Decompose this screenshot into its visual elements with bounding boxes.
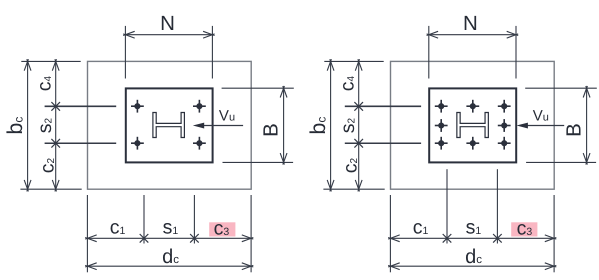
dimension line N bbox=[125, 34, 212, 36]
svg-text:dc: dc bbox=[162, 246, 179, 268]
tick c1/s1 bbox=[140, 234, 149, 243]
tick chain at bolt row 2 bbox=[354, 139, 363, 148]
svg-text:c3: c3 bbox=[214, 217, 230, 239]
label b_c bbox=[3, 117, 27, 135]
extension line footing bottom-left bbox=[20, 188, 81, 190]
dimension line B bbox=[586, 88, 588, 162]
arrowhead c1 left bbox=[85, 235, 97, 242]
extension line footing bottom-left bbox=[323, 188, 384, 190]
extension line plate top edge (B) bbox=[222, 87, 294, 89]
svg-text:s1: s1 bbox=[466, 217, 482, 239]
label B bbox=[260, 123, 283, 137]
extension line bolt row 2 bbox=[345, 142, 421, 144]
arrowhead b_c top bbox=[24, 59, 31, 70]
arrowhead b_c top bbox=[327, 59, 334, 70]
arrowhead B bottom bbox=[280, 153, 287, 165]
arrowhead d_c right bbox=[545, 263, 557, 270]
label B bbox=[563, 123, 586, 137]
anchor bolt 3 bbox=[498, 100, 511, 113]
svg-text:c4: c4 bbox=[34, 76, 56, 92]
dimension line c1/s1/c3 bbox=[390, 237, 554, 239]
arrowhead d_c right bbox=[242, 263, 254, 270]
extension line d_c right bbox=[250, 195, 252, 272]
svg-text:bc: bc bbox=[3, 117, 27, 135]
arrowhead b_c bottom bbox=[24, 180, 31, 192]
extension line bolt row 1 bbox=[45, 105, 117, 107]
shear force arrow V_U bbox=[517, 123, 565, 129]
extension line plate bottom edge (B) bbox=[526, 161, 596, 163]
arrowhead chain bottom bbox=[52, 180, 59, 192]
arrowhead d_c left bbox=[85, 263, 97, 270]
arrowhead b_c bottom bbox=[327, 180, 334, 192]
extension line footing top-left bbox=[324, 60, 383, 62]
extension line s1 right bbox=[193, 195, 195, 244]
dimension line b_c bbox=[330, 61, 332, 189]
arrowhead N right bbox=[507, 31, 519, 38]
extension line plate top edge (B) bbox=[525, 87, 597, 89]
footing (pedestal) outline bbox=[391, 61, 555, 189]
extension line bolt row 2 bbox=[45, 142, 117, 144]
anchor bolt 2 bbox=[466, 100, 479, 113]
arrowhead N right bbox=[203, 31, 215, 38]
extension line plate left edge (N) bbox=[428, 26, 430, 79]
dimension line b_c bbox=[27, 61, 29, 189]
extension line d_c left bbox=[86, 195, 88, 272]
anchor bolt 4 bbox=[435, 119, 448, 132]
arrowhead c1 left bbox=[388, 235, 400, 242]
extension line d_c left bbox=[389, 195, 391, 272]
label c_4 bbox=[337, 76, 359, 92]
arrowhead chain bottom bbox=[355, 180, 362, 192]
label s_2 bbox=[34, 118, 56, 134]
dimension chain line c4/s2/c2 bbox=[358, 61, 360, 189]
tick chain at bolt row 1 bbox=[354, 102, 363, 111]
dimension line c1/s1/c3 bbox=[87, 237, 251, 239]
label c_2 bbox=[340, 158, 362, 174]
highlight box c_3 bbox=[511, 222, 537, 236]
dimension line B bbox=[283, 88, 285, 162]
extension line bolt row 1 bbox=[345, 105, 421, 107]
svg-text:c1: c1 bbox=[110, 217, 126, 239]
base plate outline bbox=[429, 88, 516, 162]
arrowhead d_c left bbox=[388, 263, 400, 270]
anchor bolt 5 bbox=[498, 119, 511, 132]
label b_c bbox=[306, 117, 330, 135]
footing (pedestal) outline bbox=[88, 61, 252, 189]
svg-text:c3: c3 bbox=[517, 217, 533, 239]
tick chain at bolt row 2 bbox=[51, 139, 60, 148]
highlight box c_3 bbox=[209, 222, 235, 236]
steel column I-section bbox=[457, 113, 488, 138]
svg-text:c4: c4 bbox=[337, 76, 359, 92]
shear force arrow V_U bbox=[193, 123, 243, 129]
svg-text:Vu: Vu bbox=[219, 107, 235, 124]
anchor bolt 6 bbox=[435, 137, 448, 150]
arrowhead c3 right bbox=[242, 235, 254, 242]
svg-text:Vu: Vu bbox=[533, 107, 549, 124]
base plate outline bbox=[126, 88, 213, 162]
anchor bolt 8 bbox=[498, 137, 511, 150]
arrowhead B top bbox=[583, 86, 590, 98]
arrowhead chain top bbox=[355, 59, 362, 70]
extension line s1 left bbox=[446, 169, 448, 243]
dimension line N bbox=[429, 34, 516, 36]
tick chain at bolt row 1 bbox=[51, 102, 60, 111]
anchor bolt 1 bbox=[435, 100, 448, 113]
extension line plate bottom edge (B) bbox=[223, 161, 294, 163]
anchor bolt 2 bbox=[193, 100, 206, 113]
label s_2 bbox=[337, 118, 359, 134]
extension line plate right edge (N) bbox=[211, 26, 213, 79]
svg-text:bc: bc bbox=[306, 117, 330, 135]
label c_2 bbox=[37, 158, 59, 174]
extension line footing top-left bbox=[21, 60, 80, 62]
arrowhead B bottom bbox=[583, 153, 590, 165]
arrowhead B top bbox=[280, 86, 287, 98]
steel column I-section bbox=[153, 113, 185, 138]
tick s1/c3 bbox=[190, 234, 199, 243]
dimension line d_c bbox=[87, 265, 251, 267]
tick s1/c3 bbox=[493, 234, 502, 243]
svg-text:c1: c1 bbox=[413, 217, 429, 239]
arrowhead c3 right bbox=[545, 235, 557, 242]
dimension chain line c4/s2/c2 bbox=[55, 61, 57, 189]
arrowhead N left bbox=[427, 31, 439, 38]
extension line plate right edge (N) bbox=[515, 26, 517, 79]
svg-text:s1: s1 bbox=[163, 217, 179, 239]
extension line d_c right bbox=[553, 195, 555, 272]
tick c1/s1 bbox=[443, 234, 452, 243]
svg-text:s2: s2 bbox=[34, 118, 56, 134]
dimension line d_c bbox=[390, 265, 554, 267]
anchor bolt 1 bbox=[131, 100, 144, 113]
svg-text:s2: s2 bbox=[337, 118, 359, 134]
arrowhead chain top bbox=[52, 59, 59, 70]
svg-text:dc: dc bbox=[465, 246, 482, 268]
extension line plate left edge (N) bbox=[124, 26, 126, 79]
svg-text:N: N bbox=[160, 12, 175, 35]
extension line s1 right bbox=[496, 169, 498, 243]
svg-text:c2: c2 bbox=[37, 158, 59, 174]
label c_4 bbox=[34, 76, 56, 92]
anchor bolt 3 bbox=[131, 137, 144, 150]
anchor bolt 4 bbox=[193, 137, 206, 150]
arrowhead N left bbox=[123, 31, 135, 38]
anchor bolt 7 bbox=[466, 137, 479, 150]
svg-text:c2: c2 bbox=[340, 158, 362, 174]
extension line s1 left bbox=[143, 195, 145, 244]
svg-text:B: B bbox=[260, 123, 283, 137]
svg-text:N: N bbox=[463, 12, 478, 35]
svg-text:B: B bbox=[563, 123, 586, 137]
